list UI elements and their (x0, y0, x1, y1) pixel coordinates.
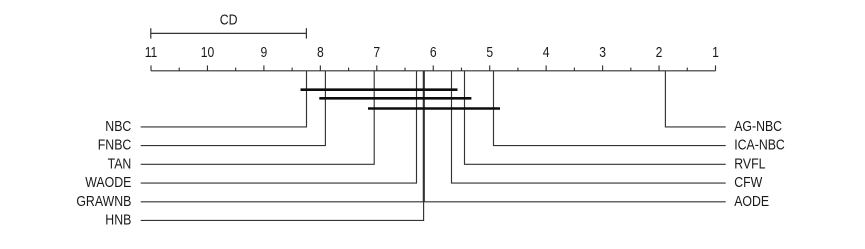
svg-text:10: 10 (201, 44, 215, 60)
svg-text:CFW: CFW (734, 174, 762, 190)
svg-text:11: 11 (145, 44, 158, 60)
svg-text:CD: CD (220, 12, 238, 28)
svg-text:1: 1 (712, 44, 719, 60)
svg-text:AG-NBC: AG-NBC (734, 118, 782, 134)
svg-text:GRAWNB: GRAWNB (76, 193, 131, 209)
svg-text:9: 9 (261, 44, 268, 60)
svg-text:WAODE: WAODE (85, 174, 131, 190)
svg-text:HNB: HNB (105, 212, 131, 228)
svg-text:7: 7 (373, 44, 380, 60)
svg-text:5: 5 (486, 44, 493, 60)
svg-text:2: 2 (656, 44, 663, 60)
svg-text:NBC: NBC (105, 118, 131, 134)
svg-text:FNBC: FNBC (98, 137, 132, 153)
svg-text:8: 8 (317, 44, 324, 60)
svg-text:6: 6 (430, 44, 437, 60)
svg-text:4: 4 (543, 44, 550, 60)
svg-text:3: 3 (599, 44, 606, 60)
svg-text:AODE: AODE (734, 193, 769, 209)
svg-text:RVFL: RVFL (734, 155, 766, 171)
svg-text:TAN: TAN (108, 155, 132, 171)
svg-text:ICA-NBC: ICA-NBC (734, 137, 785, 153)
